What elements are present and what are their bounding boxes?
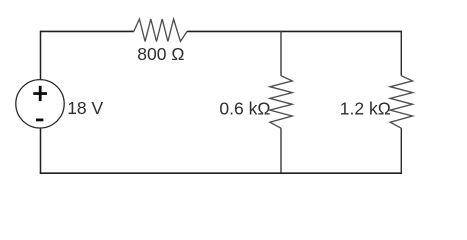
wire middle branch upper <box>280 31 282 76</box>
wire right vertical upper <box>400 31 402 76</box>
wire R1 to top-right corner <box>187 30 402 32</box>
wire top-left to resistor R1 <box>41 30 134 32</box>
wire right vertical lower <box>400 128 402 173</box>
svg-text:0.6 kΩ: 0.6 kΩ <box>219 99 270 119</box>
wire bottom <box>40 172 402 174</box>
resistor R2 0.6 kohm <box>270 76 292 128</box>
svg-text:18 V: 18 V <box>67 98 103 118</box>
plus sign <box>33 86 47 101</box>
wire middle branch lower <box>280 128 282 173</box>
resistor R1 800 ohm <box>134 19 187 42</box>
voltage source V1 circle <box>16 80 64 128</box>
svg-text:1.2 kΩ: 1.2 kΩ <box>340 99 391 119</box>
resistor R3 1.2 kohm <box>390 76 412 128</box>
minus sign <box>36 119 43 122</box>
wire left vertical <box>40 31 42 174</box>
svg-text:800 Ω: 800 Ω <box>137 44 184 64</box>
